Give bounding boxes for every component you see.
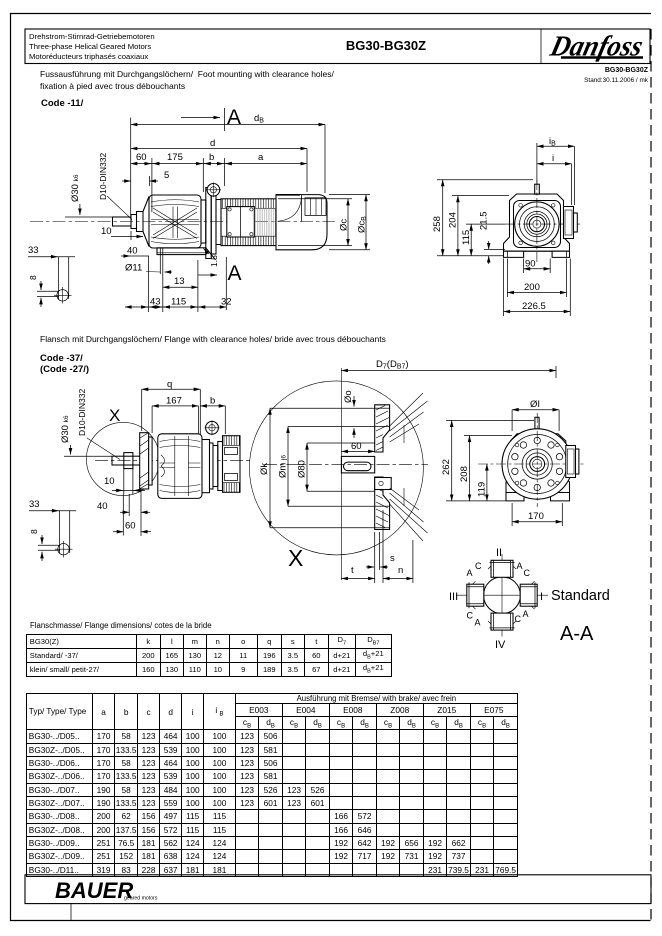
dim row 60 175 b a	[131, 118, 307, 217]
svg-text:X: X	[109, 406, 120, 425]
svg-text:10: 10	[104, 476, 115, 487]
svg-text:170: 170	[528, 511, 544, 522]
svg-text:115: 115	[461, 230, 472, 245]
dim 170 front2	[512, 503, 562, 526]
drawing2 front view housing	[506, 434, 570, 501]
svg-text:ØcB: ØcB	[357, 216, 369, 233]
dim 13 drawing1	[163, 276, 198, 287]
svg-text:Øo: Øo	[343, 390, 354, 403]
dim 40 drawing1	[121, 246, 149, 257]
brake connector box detail	[375, 478, 392, 490]
svg-text:C: C	[475, 561, 482, 571]
detail shaft	[341, 456, 374, 473]
svg-text:dB: dB	[254, 113, 264, 125]
svg-text:A: A	[467, 568, 473, 578]
dim Øc / ØcB drawing1	[278, 195, 370, 250]
svg-text:A: A	[228, 262, 242, 285]
section A-A top port	[488, 560, 516, 577]
dim d	[131, 138, 307, 192]
svg-text:BAUER: BAUER	[55, 878, 133, 903]
dim 10 drawing2	[104, 469, 145, 494]
svg-text:40: 40	[97, 501, 108, 512]
main dimensions table	[26, 693, 518, 877]
brake housing drawing1	[276, 195, 327, 250]
section 2 heading	[40, 334, 386, 344]
header title box	[25, 29, 650, 64]
svg-text:13: 13	[174, 276, 185, 287]
lifting eyebolt drawing1	[206, 182, 221, 197]
svg-text:A: A	[227, 106, 241, 129]
drawing1 front terminal box side	[564, 207, 578, 239]
dim 204 front1	[448, 196, 510, 256]
section A-A left port	[467, 581, 484, 609]
svg-text:s: s	[390, 553, 395, 564]
svg-text:119: 119	[477, 482, 488, 497]
label D10-DIN332 rotated drawing1	[98, 152, 132, 219]
svg-text:5: 5	[164, 170, 169, 181]
svg-text:X: X	[288, 545, 303, 571]
drawing2 front terminal box	[566, 446, 579, 478]
dim q drawing2	[142, 379, 201, 437]
BAUER logo	[55, 878, 158, 903]
svg-text:b: b	[210, 396, 215, 407]
svg-text:90: 90	[525, 259, 536, 270]
flange table title	[30, 621, 212, 630]
drawing1 front view shaft tip	[535, 184, 540, 194]
detail X centerline	[264, 464, 428, 466]
Danfoss logo	[546, 31, 646, 63]
dim Øm j6	[278, 426, 289, 506]
svg-text:204: 204	[448, 212, 459, 228]
footer divider tick	[70, 904, 72, 921]
svg-text:60: 60	[136, 152, 147, 163]
svg-text:q: q	[167, 379, 172, 390]
flange plate drawing2	[140, 433, 152, 489]
dim Øk	[259, 408, 270, 528]
svg-text:IV: IV	[495, 639, 506, 651]
section arrow A top	[181, 106, 241, 131]
svg-text:D7(DB7): D7(DB7)	[376, 359, 409, 371]
svg-text:33: 33	[28, 245, 39, 256]
gearbox housing drawing2	[158, 434, 202, 499]
section A-A center circle	[456, 554, 548, 637]
dim D7(DB7)	[341, 359, 556, 378]
flange dimensions table	[26, 634, 392, 677]
motor stator drawing1	[216, 199, 276, 246]
motor flange plates drawing1	[201, 188, 216, 259]
svg-text:Øm j6: Øm j6	[278, 455, 289, 478]
label Code -37/ (Code -27/)	[40, 353, 89, 376]
svg-text:d: d	[210, 138, 215, 149]
dim 5	[122, 170, 169, 186]
svg-text:A: A	[523, 609, 529, 619]
svg-text:Øk: Øk	[259, 463, 270, 475]
header center model title	[280, 38, 492, 53]
svg-text:Ø30 k6: Ø30 k6	[70, 174, 81, 202]
section A-A labels	[449, 547, 543, 651]
svg-text:n: n	[398, 565, 403, 576]
dim 200 front1	[507, 259, 566, 298]
motor winding hatch drawing1	[256, 208, 276, 237]
dim 258 front1	[432, 180, 533, 256]
label Code -11/	[41, 98, 83, 109]
BAUER footer band	[25, 875, 651, 904]
svg-text:Ø30 k6: Ø30 k6	[60, 415, 71, 443]
svg-text:60: 60	[351, 441, 362, 452]
svg-text:Ø11: Ø11	[125, 263, 142, 274]
header right doc info	[460, 67, 648, 84]
page right cut mark dashed line	[650, 29, 652, 921]
drawing2 front flange circles	[502, 429, 572, 499]
label Ø30 k6 rotated	[65, 174, 113, 217]
section A-A right port	[520, 581, 537, 609]
drawing2 centerline	[95, 460, 250, 462]
dim iB front1	[537, 136, 575, 205]
section 1 heading	[40, 68, 334, 93]
drawing2 front shaft tip	[535, 417, 539, 434]
lifting eyebolt drawing2	[205, 420, 220, 435]
dim row 43 115 32	[125, 256, 232, 312]
detail X big circle	[249, 381, 423, 555]
dim Øo	[343, 390, 354, 438]
motor flange bell drawing2	[202, 440, 218, 493]
svg-text:A: A	[475, 618, 481, 628]
dim 119 front2	[477, 464, 488, 501]
svg-text:Standard: Standard	[551, 588, 610, 604]
svg-text:A-A: A-A	[560, 623, 594, 645]
svg-text:60: 60	[125, 521, 136, 532]
svg-text:t: t	[351, 565, 354, 576]
terminal box drawing1	[227, 207, 255, 237]
drawing1 front view housing	[504, 194, 570, 257]
svg-text:geared motors: geared motors	[124, 896, 158, 902]
svg-text:Ø80: Ø80	[297, 460, 308, 478]
svg-text:D10-DIN332: D10-DIN332	[98, 152, 108, 200]
label D10-DIN332 rotated drawing2	[77, 388, 120, 459]
dim b drawing2	[200, 396, 225, 435]
dim Ø11 foot hole	[125, 263, 172, 274]
svg-text:43: 43	[150, 297, 161, 308]
svg-text:167: 167	[166, 396, 182, 407]
svg-text:208: 208	[459, 466, 470, 482]
svg-text:226.5: 226.5	[522, 301, 546, 312]
dim 262 front2	[441, 420, 534, 501]
svg-text:A: A	[517, 561, 523, 571]
dim i front1	[537, 143, 572, 205]
dim 115 front1	[461, 224, 505, 256]
svg-text:21.5: 21.5	[479, 212, 490, 231]
motor bell cone fan lines	[390, 393, 428, 541]
key end detail drawing1 (33/8)	[28, 245, 75, 307]
drawing2 front corner screws	[515, 443, 559, 485]
dim 208 front2	[459, 436, 512, 501]
detail X indicator circle	[86, 422, 159, 495]
dim ØI front2	[512, 399, 559, 431]
key end detail drawing2 (33/8)	[29, 499, 76, 561]
flange cross-section upper	[375, 405, 390, 452]
svg-text:10: 10	[101, 226, 112, 237]
dim dB top	[131, 113, 325, 193]
flange cross-section lower	[375, 477, 390, 530]
svg-text:258: 258	[432, 216, 443, 232]
detail X horizontal extension lines	[270, 408, 375, 528]
svg-text:C: C	[524, 568, 531, 578]
svg-text:8: 8	[28, 275, 38, 280]
svg-text:175: 175	[167, 152, 183, 163]
dim Ø80	[297, 443, 308, 491]
svg-text:8: 8	[29, 529, 39, 534]
svg-text:1.5: 1.5	[209, 255, 219, 267]
dim 60 drawing2	[113, 494, 151, 536]
svg-text:iB: iB	[549, 136, 556, 148]
svg-text:I: I	[540, 591, 543, 603]
svg-text:C: C	[515, 614, 522, 624]
svg-text:Øc: Øc	[339, 219, 350, 231]
svg-text:III: III	[449, 591, 458, 603]
dim 21.5 front1	[479, 212, 506, 265]
flange center reference line	[340, 368, 342, 580]
svg-text:II: II	[496, 547, 502, 559]
svg-text:ØI: ØI	[530, 399, 540, 410]
svg-text:115: 115	[171, 297, 186, 308]
svg-text:b: b	[209, 152, 214, 163]
dim 167 drawing2	[152, 396, 198, 438]
header box divider before Danfoss logo	[540, 29, 542, 64]
header trilingual title	[29, 32, 155, 63]
svg-text:C: C	[467, 611, 474, 621]
dims s t n	[341, 510, 413, 583]
dim 10 shaft	[101, 226, 143, 240]
svg-text:200: 200	[524, 282, 540, 293]
drawing1 front view circles	[505, 180, 580, 262]
output shaft drawing1	[113, 197, 150, 247]
dim 40 drawing2	[97, 489, 150, 536]
gearbox foot drawing1	[157, 248, 216, 274]
section A-A bottom port	[488, 613, 516, 630]
drawing2 front bolt holes	[512, 437, 563, 490]
svg-text:D10-DIN332: D10-DIN332	[77, 388, 87, 436]
section arrow A bottom	[198, 257, 242, 310]
dim 1.5 gap	[204, 249, 220, 268]
svg-text:33: 33	[29, 499, 40, 510]
gearbox housing drawing1	[149, 195, 201, 248]
dim 90 front1	[524, 259, 551, 274]
drawing2 front centerlines	[478, 413, 585, 507]
svg-text:32: 32	[221, 297, 232, 308]
motor stator drawing2	[218, 436, 240, 493]
dim 60 detail	[341, 441, 374, 452]
output shaft drawing2	[112, 453, 141, 469]
svg-text:40: 40	[127, 246, 138, 257]
dim 226.5 front1	[504, 259, 571, 317]
svg-text:i: i	[552, 153, 554, 164]
svg-text:a: a	[258, 152, 264, 163]
label Ø30 k6 rotated drawing2	[60, 415, 112, 456]
svg-text:262: 262	[441, 459, 452, 475]
drawing 1 centerline	[30, 221, 335, 223]
